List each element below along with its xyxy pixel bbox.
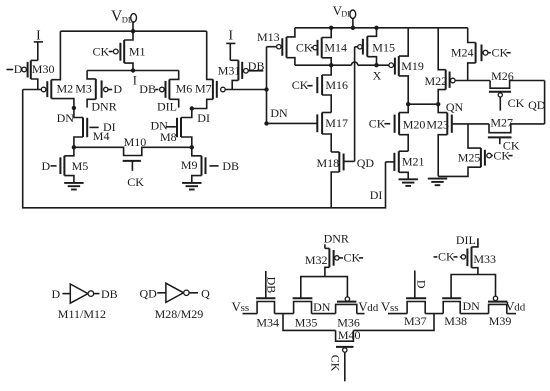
wire DI line to M21 gate [386, 161, 395, 163]
junction dot tail rail left [72, 145, 76, 149]
label M11/M12 [58, 307, 106, 321]
junction dot VDD-right stem [351, 26, 355, 30]
svg-text:CK: CK [508, 96, 525, 110]
wire M23 source to ground run [438, 135, 447, 177]
label DIL (M33 drain) [456, 233, 476, 247]
label Vdd (right) [505, 299, 526, 314]
wire M40 line (right tap up) [353, 314, 434, 331]
wire M9 drain to tail rail [192, 147, 202, 156]
wire M18 source to DI line [331, 172, 339, 208]
label net DIL [157, 99, 177, 113]
label DNR (M32 drain) [324, 232, 349, 246]
label DI (on feedback wire) [370, 188, 383, 202]
transistor M1 (PMOS, gate CK) [93, 31, 146, 70]
wire VDD rail to M7 source [207, 31, 213, 79]
label DN (middle) [270, 106, 288, 120]
wire M32 source to level-shift box1 [325, 267, 330, 276]
label D (rotated, M37 gate) [414, 280, 428, 289]
transistor M13 (PMOS) [257, 30, 287, 58]
svg-text:CK: CK [93, 45, 110, 59]
label DN (left bottom) [313, 300, 331, 314]
svg-text:M20: M20 [403, 117, 426, 131]
svg-text:M4: M4 [93, 129, 110, 143]
label node I [133, 74, 137, 88]
label M28/M29 [155, 307, 204, 321]
wire M21 source to ground [399, 172, 408, 179]
wire QD net (M15 gate to M18 gate, hops X rail) [354, 47, 356, 162]
wire M15 drain to X rail [367, 57, 376, 65]
svg-text:M7: M7 [195, 82, 212, 96]
svg-text:CK: CK [493, 148, 510, 162]
bubble M39 gate [493, 296, 497, 300]
svg-text:QD: QD [140, 286, 158, 300]
transistor M22 (PMOS) [425, 70, 456, 90]
transistor M32 (PMOS, gate CK-bar) [305, 244, 363, 267]
svg-text:M24: M24 [451, 45, 474, 59]
svg-text:M21: M21 [402, 154, 425, 168]
svg-text:M27: M27 [490, 115, 513, 129]
current source I (bias for M30) [34, 27, 43, 60]
ground (under M5) [64, 183, 83, 190]
svg-text:DIL: DIL [157, 99, 177, 113]
wire M15 source to VDD rail2 [367, 28, 376, 37]
svg-text:CK: CK [492, 45, 509, 59]
label M27 [490, 115, 513, 129]
transistor M6 (PMOS, gate DB) [139, 79, 192, 99]
wire M24 source to VDD rail2 [468, 28, 476, 43]
wire M35 to M36 [312, 313, 336, 315]
svg-text:M6: M6 [176, 82, 193, 96]
label QD (at M18 gate) [357, 156, 375, 170]
svg-text:ss: ss [241, 302, 250, 314]
transistor M38 (NMOS) [442, 298, 467, 328]
power VDD (right supply symbol) [333, 3, 356, 28]
svg-text:DB: DB [248, 59, 265, 73]
svg-text:I: I [133, 74, 137, 88]
svg-text:CK: CK [127, 175, 144, 189]
junction dot M14-VDD [329, 26, 333, 30]
junction dot DN corner [264, 121, 268, 125]
svg-text:M8: M8 [160, 130, 177, 144]
wire M4 drain to node DN [74, 108, 83, 118]
wire M6 source to node I rail [169, 71, 178, 80]
junction dot M31/M7/M13 node [264, 87, 268, 91]
junction dot tail rail right [190, 145, 194, 149]
svg-text:DIL: DIL [456, 233, 476, 247]
wire M27 junction to M25 drain [468, 124, 481, 148]
junction dot M19/M20 on QN rail [406, 102, 410, 106]
wire node DI to M2 gate [23, 89, 42, 91]
svg-text:M14: M14 [324, 40, 347, 54]
junction dot node DI-internal (M7/M8) [190, 106, 194, 110]
wire M7 drain to M8 node [192, 99, 213, 108]
transistor M10 (NMOS pass, gate CK) with tail rail [74, 147, 192, 189]
current source I (bias for M31) [226, 27, 235, 60]
svg-text:DB: DB [222, 159, 239, 173]
wire M17 source to M18 drain [322, 134, 331, 152]
transistor M31 (PMOS, gate DB) [218, 59, 265, 80]
wire M4 source to tail rail [74, 137, 83, 147]
wire M40 line (left tap down) [283, 314, 336, 331]
svg-text:M33: M33 [473, 252, 496, 266]
transistor M16 (NMOS, gate CK) [292, 75, 348, 95]
transistor M27 (NMOS pass, gate CK) in QD line [468, 124, 545, 152]
transistor M24 (PMOS, gate CK-bar) [451, 43, 511, 63]
wire M33 drain to DIL [472, 238, 478, 247]
wire M20 source to M21 [399, 135, 408, 152]
wire M38 to M39 [460, 313, 488, 315]
svg-text:D: D [52, 287, 61, 301]
wire M14 drain to X rail [322, 58, 332, 65]
wire M37 to M38 (tap to M40 line) [425, 313, 443, 315]
label M10 [124, 135, 147, 149]
svg-text:M17: M17 [325, 116, 348, 130]
wire box2 (M33 to M38/M39 gates) [451, 275, 495, 298]
wire M31 source to M7 gate / node DN-int [225, 80, 266, 89]
svg-text:X: X [373, 68, 382, 82]
wire M5 source to ground [64, 176, 74, 183]
wire M19 source to VDD rail2 [399, 28, 408, 56]
label net DNR [91, 99, 116, 113]
transistor M4 (NMOS, gate DI) [83, 118, 116, 144]
svg-text:M35: M35 [295, 316, 318, 330]
svg-text:DNR: DNR [91, 99, 116, 113]
wire M3 drain to net DNR [87, 99, 96, 107]
svg-text:DB: DB [101, 287, 118, 301]
svg-text:ss: ss [390, 302, 399, 314]
svg-text:D: D [414, 280, 428, 289]
wire M33 source to level-shift box2 [472, 268, 478, 275]
transistor M19 (PMOS, gate X) [389, 56, 424, 76]
svg-text:D: D [42, 159, 51, 173]
label node DN [57, 111, 75, 125]
junction dot VDD-left rail [131, 29, 135, 33]
label CK (rotated, M40 gate) [328, 355, 342, 372]
label M26 [491, 69, 514, 83]
wire Vss to M37 [388, 313, 407, 315]
wire M2 drain to node DN [51, 99, 74, 108]
transistor M34 (NMOS, gate DB) [256, 271, 279, 330]
transistor M2 (PMOS, gate from DI feedback) [41, 80, 73, 99]
svg-text:M37: M37 [404, 314, 427, 328]
wire M18 drain lead [331, 151, 339, 153]
junction dot node I [131, 68, 135, 72]
wire M3 source to node I rail [87, 71, 96, 79]
svg-text:CK: CK [344, 251, 361, 265]
svg-text:DN: DN [270, 106, 288, 120]
svg-text:M39: M39 [489, 314, 512, 328]
svg-text:M31: M31 [218, 64, 241, 78]
svg-text:DN: DN [463, 299, 481, 313]
transistor M18 (NMOS, gate QD) [317, 152, 355, 172]
transistor M36 (PMOS) [336, 302, 360, 330]
node QN rail [408, 103, 438, 105]
wire M16 drain to X rail [322, 65, 331, 75]
svg-text:M11/M12: M11/M12 [58, 307, 106, 321]
power VDD (left supply symbol) [111, 8, 137, 31]
wire M39 to Vdd [507, 313, 516, 315]
transistor M14 (PMOS, gate CK) [296, 38, 347, 58]
wire M30 source to DI feedback node [31, 79, 38, 90]
ground (under M9) [182, 183, 201, 190]
wire M20 drain to QN rail [399, 104, 408, 112]
junction dot node DN [72, 106, 76, 110]
transistor M21 (NMOS, gate DI) [394, 151, 424, 172]
svg-text:M22: M22 [425, 74, 448, 88]
wire M21 drain lead [399, 150, 408, 152]
transistor M8 (NMOS, gate DN) [151, 118, 182, 144]
transistor M5 (NMOS, gate D) [42, 156, 89, 176]
svg-text:M18: M18 [317, 156, 340, 170]
svg-text:dd: dd [367, 302, 379, 314]
label DN (right bottom) [463, 299, 481, 313]
svg-text:M19: M19 [401, 59, 424, 73]
label DB (rotated, M34 gate) [265, 277, 279, 294]
svg-text:CK: CK [438, 250, 455, 264]
svg-text:CK: CK [292, 78, 309, 92]
transistor M15 (PMOS, gate QD) [355, 36, 395, 56]
wire M13 source to VDD rail2 [287, 28, 295, 37]
svg-text:I: I [36, 27, 41, 42]
svg-text:M1: M1 [129, 45, 146, 59]
ground (under M21) [399, 179, 418, 186]
svg-text:CK: CK [328, 355, 342, 372]
label Vss (left) [232, 299, 250, 314]
junction dot M15-VDD [374, 26, 378, 30]
svg-text:DB: DB [139, 82, 156, 96]
svg-text:DI: DI [370, 188, 383, 202]
label QD (right edge) [528, 98, 546, 112]
label X [373, 68, 382, 82]
svg-text:M30: M30 [32, 62, 55, 76]
node VDD rail (middle) [295, 27, 468, 29]
transistor M30 (PMOS, gate D) [7, 60, 55, 79]
svg-text:CK: CK [296, 40, 313, 54]
svg-text:DB: DB [265, 277, 279, 294]
svg-text:M13: M13 [257, 30, 280, 44]
label QN [446, 100, 464, 114]
svg-text:M5: M5 [72, 159, 89, 173]
wire M36 to Vdd [357, 313, 365, 315]
transistor M7 (PMOS, gate from node DN) [195, 79, 225, 99]
wire M17 drain lead [322, 112, 331, 114]
transistor M3 (PMOS, gate D) [75, 79, 122, 99]
transistor M33 (PMOS, gate CK-bar) [434, 247, 497, 268]
ground (under M23/M25) [428, 179, 447, 186]
node X rail (with crossover hop) [295, 62, 389, 65]
svg-text:M34: M34 [256, 316, 279, 330]
svg-text:DI: DI [197, 111, 210, 125]
svg-text:M9: M9 [181, 158, 198, 172]
svg-text:QD: QD [528, 98, 546, 112]
transistor M23 (NMOS, gate QD-line) [426, 113, 468, 135]
wire DI feedback (long vertical + bottom run) [23, 90, 386, 208]
wire M14 source to VDD rail2 [322, 28, 332, 38]
svg-text:M3: M3 [75, 82, 92, 96]
wire M13 drain to X rail [287, 58, 295, 65]
transistor M25 (PMOS, gate CK-bar) [458, 148, 513, 167]
wire M6 drain to net DIL [169, 99, 178, 107]
svg-text:QD: QD [357, 156, 375, 170]
svg-text:D: D [113, 82, 122, 96]
wire node to M13 gate and down to DN corner [266, 47, 268, 124]
wire QD right edge (M26 to M27) [544, 81, 546, 124]
bubble M36 gate [345, 297, 349, 301]
svg-text:M23: M23 [426, 117, 449, 131]
wire M19 drain to QN rail [399, 76, 408, 104]
svg-text:M2: M2 [57, 82, 74, 96]
transistor M40 (PMOS pass, gate CK) [336, 330, 354, 381]
label M40 [338, 328, 361, 342]
transistor M9 (NMOS, gate DB) [181, 156, 239, 176]
node VDD rail (left) [60, 30, 206, 32]
svg-text:M28/M29: M28/M29 [155, 307, 204, 321]
wire Vss to M34 [243, 313, 258, 315]
wire M9 source to ground [192, 176, 202, 183]
svg-text:M32: M32 [305, 253, 328, 267]
junction dot M22/M23 on QN rail [436, 102, 440, 106]
transistor M37 (NMOS, gate D) [404, 271, 427, 328]
wire M16 source to M17 drain [322, 95, 331, 113]
inverter M11/M12 (D to DB) [52, 284, 118, 303]
wire M24 drain to M22 gate line [468, 63, 476, 81]
wire M23 drain to QN rail [438, 104, 447, 112]
wire M34 to M35 (tap to M40 line) [275, 313, 294, 315]
junction dot X node [374, 63, 378, 67]
svg-text:M38: M38 [444, 314, 467, 328]
wire M22 drain to QN rail [438, 90, 446, 105]
transistor M35 (NMOS) [293, 298, 318, 329]
wire M22 gate to M26 line [455, 80, 490, 82]
wire M25 source to ground run [438, 167, 481, 176]
svg-text:I: I [229, 27, 234, 42]
wire VDD rail to M2 source [51, 31, 60, 79]
transistor M26 (PMOS pass, gate CK) in QN-QD line [489, 81, 545, 111]
svg-text:M25: M25 [458, 150, 481, 164]
transistor M39 (PMOS) [488, 302, 511, 328]
svg-text:CK: CK [369, 117, 386, 131]
svg-text:Q: Q [201, 286, 210, 300]
svg-text:M15: M15 [372, 40, 395, 54]
transistor M17 (NMOS, gate DN) [317, 113, 348, 135]
wire M22 source to VDD rail2 [438, 28, 446, 70]
inverter M28/M29 (QD to Q) [140, 283, 211, 302]
svg-text:QN: QN [446, 100, 464, 114]
svg-text:DNR: DNR [324, 232, 349, 246]
svg-text:M16: M16 [325, 78, 348, 92]
label Vdd (left) [358, 299, 379, 314]
label DI (at M8 drain node) [197, 111, 210, 125]
wire M8 source to tail rail [181, 137, 192, 147]
svg-text:DN: DN [57, 111, 75, 125]
wire M8 drain to node [181, 109, 192, 118]
transistor M20 (NMOS, gate CK) [369, 113, 426, 135]
wire box1 (M32 to M35/M36 gates) [301, 277, 348, 299]
junction dot M14/M16 on X rail [329, 63, 333, 67]
wire M5 drain to tail rail [64, 147, 74, 156]
wire DN to M17 gate [267, 122, 318, 124]
svg-text:DN: DN [313, 300, 331, 314]
node I rail (internal tail node) [87, 70, 179, 72]
svg-text:dd: dd [514, 302, 526, 314]
label Vss (middle) [381, 299, 399, 314]
